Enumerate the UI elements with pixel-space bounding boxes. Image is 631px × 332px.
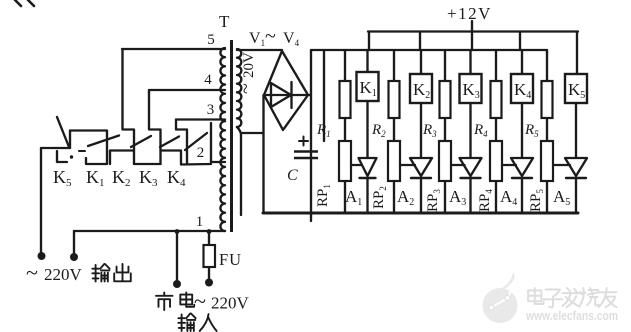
relay coil K5 xyxy=(565,74,587,103)
wire rail stub 3 xyxy=(471,32,473,51)
resistor R4 xyxy=(491,81,502,118)
transformer T primary winding xyxy=(220,48,225,231)
wire K2 to A2 anode xyxy=(420,103,422,158)
wire A2 cathode to ground xyxy=(420,178,422,213)
svg-text:20V: 20V xyxy=(241,52,257,78)
wire R1 drop xyxy=(344,50,346,81)
page crop marks xyxy=(15,0,34,6)
svg-text:3: 3 xyxy=(207,102,215,118)
watermark brand text xyxy=(528,288,616,307)
wire RP1 wiper to A1 gate xyxy=(351,164,362,166)
resistor R1 xyxy=(340,81,351,118)
wire tap 5 xyxy=(122,48,225,50)
thyristor A3 triangle xyxy=(460,158,482,176)
label RP3 xyxy=(425,189,442,212)
wire high bus seg 2 xyxy=(161,151,182,165)
thyristor A5 triangle xyxy=(565,158,587,176)
wire rail stub 1 xyxy=(368,32,370,51)
wire tap 4 xyxy=(149,89,225,91)
wire contact bus xyxy=(41,147,70,149)
svg-text:~: ~ xyxy=(194,289,206,314)
thyristor A4 triangle xyxy=(511,158,533,176)
wire RP2 wiper to A2 gate xyxy=(400,164,415,166)
wire K4 to A4 anode xyxy=(521,103,523,158)
wire rail stub 2 xyxy=(419,32,421,51)
thyristor A1 triangle xyxy=(359,158,377,176)
wire K3 to A3 anode xyxy=(469,103,471,158)
wire RP5 to ground xyxy=(546,181,548,213)
wire K5 to A5 anode xyxy=(575,103,577,158)
relay coil K3 xyxy=(460,74,482,103)
wire tap5 step xyxy=(123,49,135,164)
svg-text:~: ~ xyxy=(26,260,38,285)
bridge inner diode xyxy=(271,83,291,107)
svg-text:~: ~ xyxy=(265,26,276,48)
wire A5 cathode to ground xyxy=(575,178,577,213)
thyristor A4 cathode bar xyxy=(512,177,532,179)
junction tap1/fuse xyxy=(207,229,212,234)
wire +12V upper rail xyxy=(368,30,578,32)
relay contact K5 aux dash xyxy=(79,150,85,152)
relay contact K4 fixed segment xyxy=(181,163,211,166)
wire K5 coil drop xyxy=(576,32,578,75)
label RP2 xyxy=(371,186,388,209)
potentiometer RP3 xyxy=(439,141,451,181)
wire R2 drop xyxy=(393,50,395,81)
wire A1 cathode to ground xyxy=(366,178,368,213)
capacitor C top plate xyxy=(294,150,318,153)
bridge rectifier V1-V4 diamond xyxy=(264,51,308,130)
label RP5 xyxy=(528,189,545,212)
svg-text:C: C xyxy=(287,167,298,184)
potentiometer RP4 xyxy=(490,141,502,181)
wire bridge left vertex down (DC minus) xyxy=(262,95,264,213)
relay contact K1 fixed segment xyxy=(86,158,106,164)
wire K4 coil drop xyxy=(521,50,523,74)
thyristor A2 triangle xyxy=(410,158,432,176)
capacitor C bottom plate xyxy=(294,157,318,160)
label K2 coil xyxy=(413,80,430,101)
ground rail xyxy=(263,212,578,215)
wire R4 drop xyxy=(495,50,497,81)
label RP4 xyxy=(477,189,494,212)
fuse FU body xyxy=(204,245,216,267)
transformer T secondary winding xyxy=(237,49,241,127)
thyristor A2 cathode bar xyxy=(411,177,431,179)
relay contact K4 blade xyxy=(185,133,207,150)
wire K1 coil drop xyxy=(366,50,368,72)
wire RP2 to ground xyxy=(393,181,395,213)
label K5 coil xyxy=(568,80,585,101)
wire bridge right vertex (DC plus) xyxy=(308,94,311,96)
label RP1 xyxy=(315,184,332,207)
thyristor A3 cathode bar xyxy=(461,177,481,179)
wire output terminal 1 vertical xyxy=(40,148,42,254)
wire R5 drop xyxy=(546,50,548,81)
potentiometer RP5 xyxy=(541,141,553,181)
svg-text:www.elecfans.com: www.elecfans.com xyxy=(525,309,618,323)
wire +12V feed xyxy=(471,21,473,32)
wire mains input L vertical xyxy=(176,231,178,282)
relay contact K1 blade xyxy=(88,136,119,147)
wire RP4 wiper to A4 gate xyxy=(502,164,516,166)
terminal ~220V output L xyxy=(38,252,46,260)
label K1 coil xyxy=(360,78,377,99)
wire K3 coil drop xyxy=(469,50,471,74)
wire R3 drop xyxy=(444,50,446,81)
relay contact K2 blade xyxy=(131,136,151,147)
wire output terminal 2 vertical xyxy=(73,231,75,255)
label ~20V xyxy=(235,52,257,94)
wire high bus seg 1 xyxy=(110,151,134,165)
terminal ~220V output N xyxy=(70,253,78,261)
wire A3 cathode to ground xyxy=(469,178,471,213)
wire tap 3 xyxy=(176,118,225,120)
wire tap4 step xyxy=(149,90,161,164)
transformer T core xyxy=(230,40,233,232)
label K3 coil xyxy=(463,80,480,101)
resistor R5 xyxy=(542,81,553,118)
svg-text:1: 1 xyxy=(196,214,204,230)
watermark logo xyxy=(483,272,518,323)
svg-text:+12V: +12V xyxy=(447,4,492,23)
relay coil K2 xyxy=(410,74,432,103)
svg-text:5: 5 xyxy=(207,32,215,48)
relay coil K1 xyxy=(357,72,379,101)
svg-text:T: T xyxy=(219,12,230,31)
relay contact K5 fixed hook xyxy=(57,151,67,162)
wire tap 1 xyxy=(74,230,225,232)
wire R3 to RP3 xyxy=(444,118,446,141)
thyristor A5 cathode bar xyxy=(566,177,586,179)
relay contact K5 blade xyxy=(57,117,69,147)
wire R5 to RP5 xyxy=(546,118,548,141)
label mains 220V input line2 xyxy=(178,314,195,331)
svg-text:2: 2 xyxy=(197,145,205,161)
svg-text:220V: 220V xyxy=(211,294,250,313)
wire tap 2 xyxy=(211,161,225,163)
svg-text:220V: 220V xyxy=(44,265,83,284)
potentiometer RP2 xyxy=(388,141,400,181)
relay coil K4 xyxy=(511,74,533,103)
svg-text:FU: FU xyxy=(219,250,242,269)
relay contact K3 blade xyxy=(160,137,179,148)
relay contact K2 fixed segment xyxy=(134,163,161,165)
wire RP4 to ground xyxy=(495,181,497,213)
wire R4 to RP4 xyxy=(495,118,497,141)
label K4 coil xyxy=(514,80,531,101)
wire rail stub 4 xyxy=(519,32,521,51)
wire tap3 step xyxy=(176,120,187,165)
wire K1 to A1 anode xyxy=(366,101,368,158)
resistor R2 xyxy=(389,81,400,118)
wire R1 to RP1 xyxy=(344,118,346,141)
wire RP3 wiper to A3 gate xyxy=(451,164,465,166)
wire secondary bottom to bridge minus xyxy=(237,127,263,215)
bridge inner diode wire xyxy=(266,94,306,96)
resistor R3 xyxy=(440,81,451,118)
thyristor A1 cathode bar xyxy=(360,177,376,179)
wire contact chain hop xyxy=(70,131,107,165)
wire K2 coil drop xyxy=(420,50,422,74)
wire DC plus vertical xyxy=(310,50,312,213)
potentiometer RP1 xyxy=(339,141,351,181)
wire RP3 to ground xyxy=(444,181,446,213)
terminal mains input N xyxy=(205,279,213,287)
wire secondary top to bridge xyxy=(237,49,282,51)
wire unused stub node xyxy=(323,50,325,141)
wire A4 cathode to ground xyxy=(521,178,523,213)
capacitor C plus sign xyxy=(299,140,308,142)
label mains 220V input line1 xyxy=(156,293,172,311)
capacitor C lower stub xyxy=(310,213,312,221)
wire RP5 wiper to A5 gate xyxy=(553,164,570,166)
wire R2 to RP2 xyxy=(393,118,395,141)
fuse FU lead xyxy=(208,231,210,281)
junction tap1/mains xyxy=(175,229,180,234)
svg-text:~: ~ xyxy=(235,83,257,94)
terminal mains input L xyxy=(173,280,181,288)
svg-text:4: 4 xyxy=(204,72,212,88)
wire +12V lower rail xyxy=(311,49,547,51)
wire RP1 to ground xyxy=(344,181,346,213)
wire tap2 riser xyxy=(210,123,212,162)
